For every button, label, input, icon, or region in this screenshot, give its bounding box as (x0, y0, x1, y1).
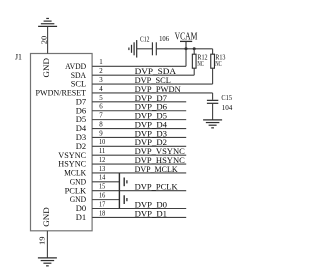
svg-text:DVP_HSYNC: DVP_HSYNC (135, 156, 185, 165)
svg-text:DVP_D7: DVP_D7 (135, 94, 167, 103)
svg-text:PCLK: PCLK (65, 186, 87, 195)
svg-text:GND: GND (42, 207, 51, 227)
svg-text:104: 104 (222, 103, 233, 112)
svg-text:D7: D7 (76, 97, 86, 106)
svg-text:D1: D1 (76, 213, 86, 222)
svg-text:DVP_D0: DVP_D0 (135, 200, 167, 209)
svg-text:DVP_D4: DVP_D4 (135, 120, 167, 129)
svg-text:4: 4 (99, 86, 103, 93)
svg-text:2: 2 (99, 68, 103, 75)
svg-text:DVP_PWDN: DVP_PWDN (135, 85, 181, 94)
svg-text:DVP_D5: DVP_D5 (135, 112, 167, 121)
svg-text:J1: J1 (15, 53, 22, 62)
svg-text:NC: NC (197, 59, 204, 68)
svg-text:D3: D3 (76, 133, 86, 142)
svg-text:DVP_D1: DVP_D1 (135, 209, 167, 218)
svg-text:17: 17 (99, 201, 106, 208)
svg-text:DVP_SCL: DVP_SCL (135, 76, 171, 85)
svg-text:GND: GND (70, 195, 87, 204)
svg-text:D0: D0 (76, 204, 86, 213)
svg-text:106: 106 (159, 34, 169, 43)
svg-text:18: 18 (99, 210, 106, 217)
svg-text:C15: C15 (221, 93, 232, 102)
svg-text:GND: GND (70, 177, 87, 186)
svg-text:12: 12 (99, 157, 106, 164)
svg-text:15: 15 (99, 184, 106, 191)
svg-text:SCL: SCL (71, 80, 87, 89)
svg-text:11: 11 (99, 148, 106, 155)
svg-text:10: 10 (99, 139, 106, 146)
svg-text:NC: NC (215, 59, 222, 68)
svg-text:DVP_PCLK: DVP_PCLK (135, 183, 178, 192)
svg-text:1: 1 (99, 59, 103, 66)
svg-text:5: 5 (99, 95, 103, 102)
svg-text:D5: D5 (76, 115, 86, 124)
svg-text:VSYNC: VSYNC (58, 151, 86, 160)
svg-text:GND: GND (42, 58, 51, 78)
svg-text:D2: D2 (76, 142, 86, 151)
svg-text:8: 8 (99, 121, 103, 128)
svg-text:D6: D6 (76, 106, 86, 115)
svg-text:MCLK: MCLK (64, 169, 86, 178)
svg-text:7: 7 (99, 113, 103, 120)
svg-text:HSYNC: HSYNC (58, 160, 86, 169)
svg-text:DVP_VSYNC: DVP_VSYNC (135, 147, 185, 156)
svg-text:DVP_D6: DVP_D6 (135, 103, 167, 112)
svg-text:13: 13 (99, 166, 106, 173)
svg-text:DVP_D3: DVP_D3 (135, 129, 167, 138)
svg-text:6: 6 (99, 104, 103, 111)
svg-text:14: 14 (99, 175, 106, 182)
svg-text:PWDN/RESET: PWDN/RESET (36, 89, 87, 98)
svg-text:DVP_SDA: DVP_SDA (135, 67, 177, 76)
svg-text:16: 16 (99, 193, 106, 200)
svg-text:SDA: SDA (71, 71, 87, 80)
svg-text:DVP_D2: DVP_D2 (135, 138, 167, 147)
svg-text:3: 3 (99, 77, 103, 84)
svg-text:DVP_MCLK: DVP_MCLK (135, 165, 178, 174)
svg-text:C12: C12 (140, 35, 150, 44)
svg-text:19: 19 (38, 236, 47, 245)
svg-text:9: 9 (99, 130, 103, 137)
svg-text:AVDD: AVDD (65, 62, 86, 71)
svg-text:D4: D4 (76, 124, 86, 133)
svg-text:20: 20 (39, 36, 48, 45)
